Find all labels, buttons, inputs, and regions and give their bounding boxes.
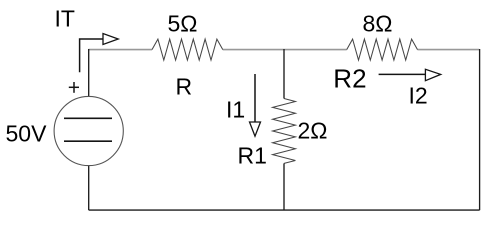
svg-text:R: R	[176, 74, 193, 100]
svg-text:R1: R1	[238, 143, 267, 169]
svg-text:R2: R2	[333, 63, 366, 93]
svg-text:50V: 50V	[6, 121, 48, 147]
svg-text:5Ω: 5Ω	[168, 11, 198, 37]
svg-text:I1: I1	[226, 97, 245, 123]
svg-text:8Ω: 8Ω	[363, 11, 393, 37]
svg-text:I2: I2	[409, 83, 428, 109]
svg-text:IT: IT	[55, 6, 75, 32]
svg-text:2Ω: 2Ω	[298, 118, 328, 144]
